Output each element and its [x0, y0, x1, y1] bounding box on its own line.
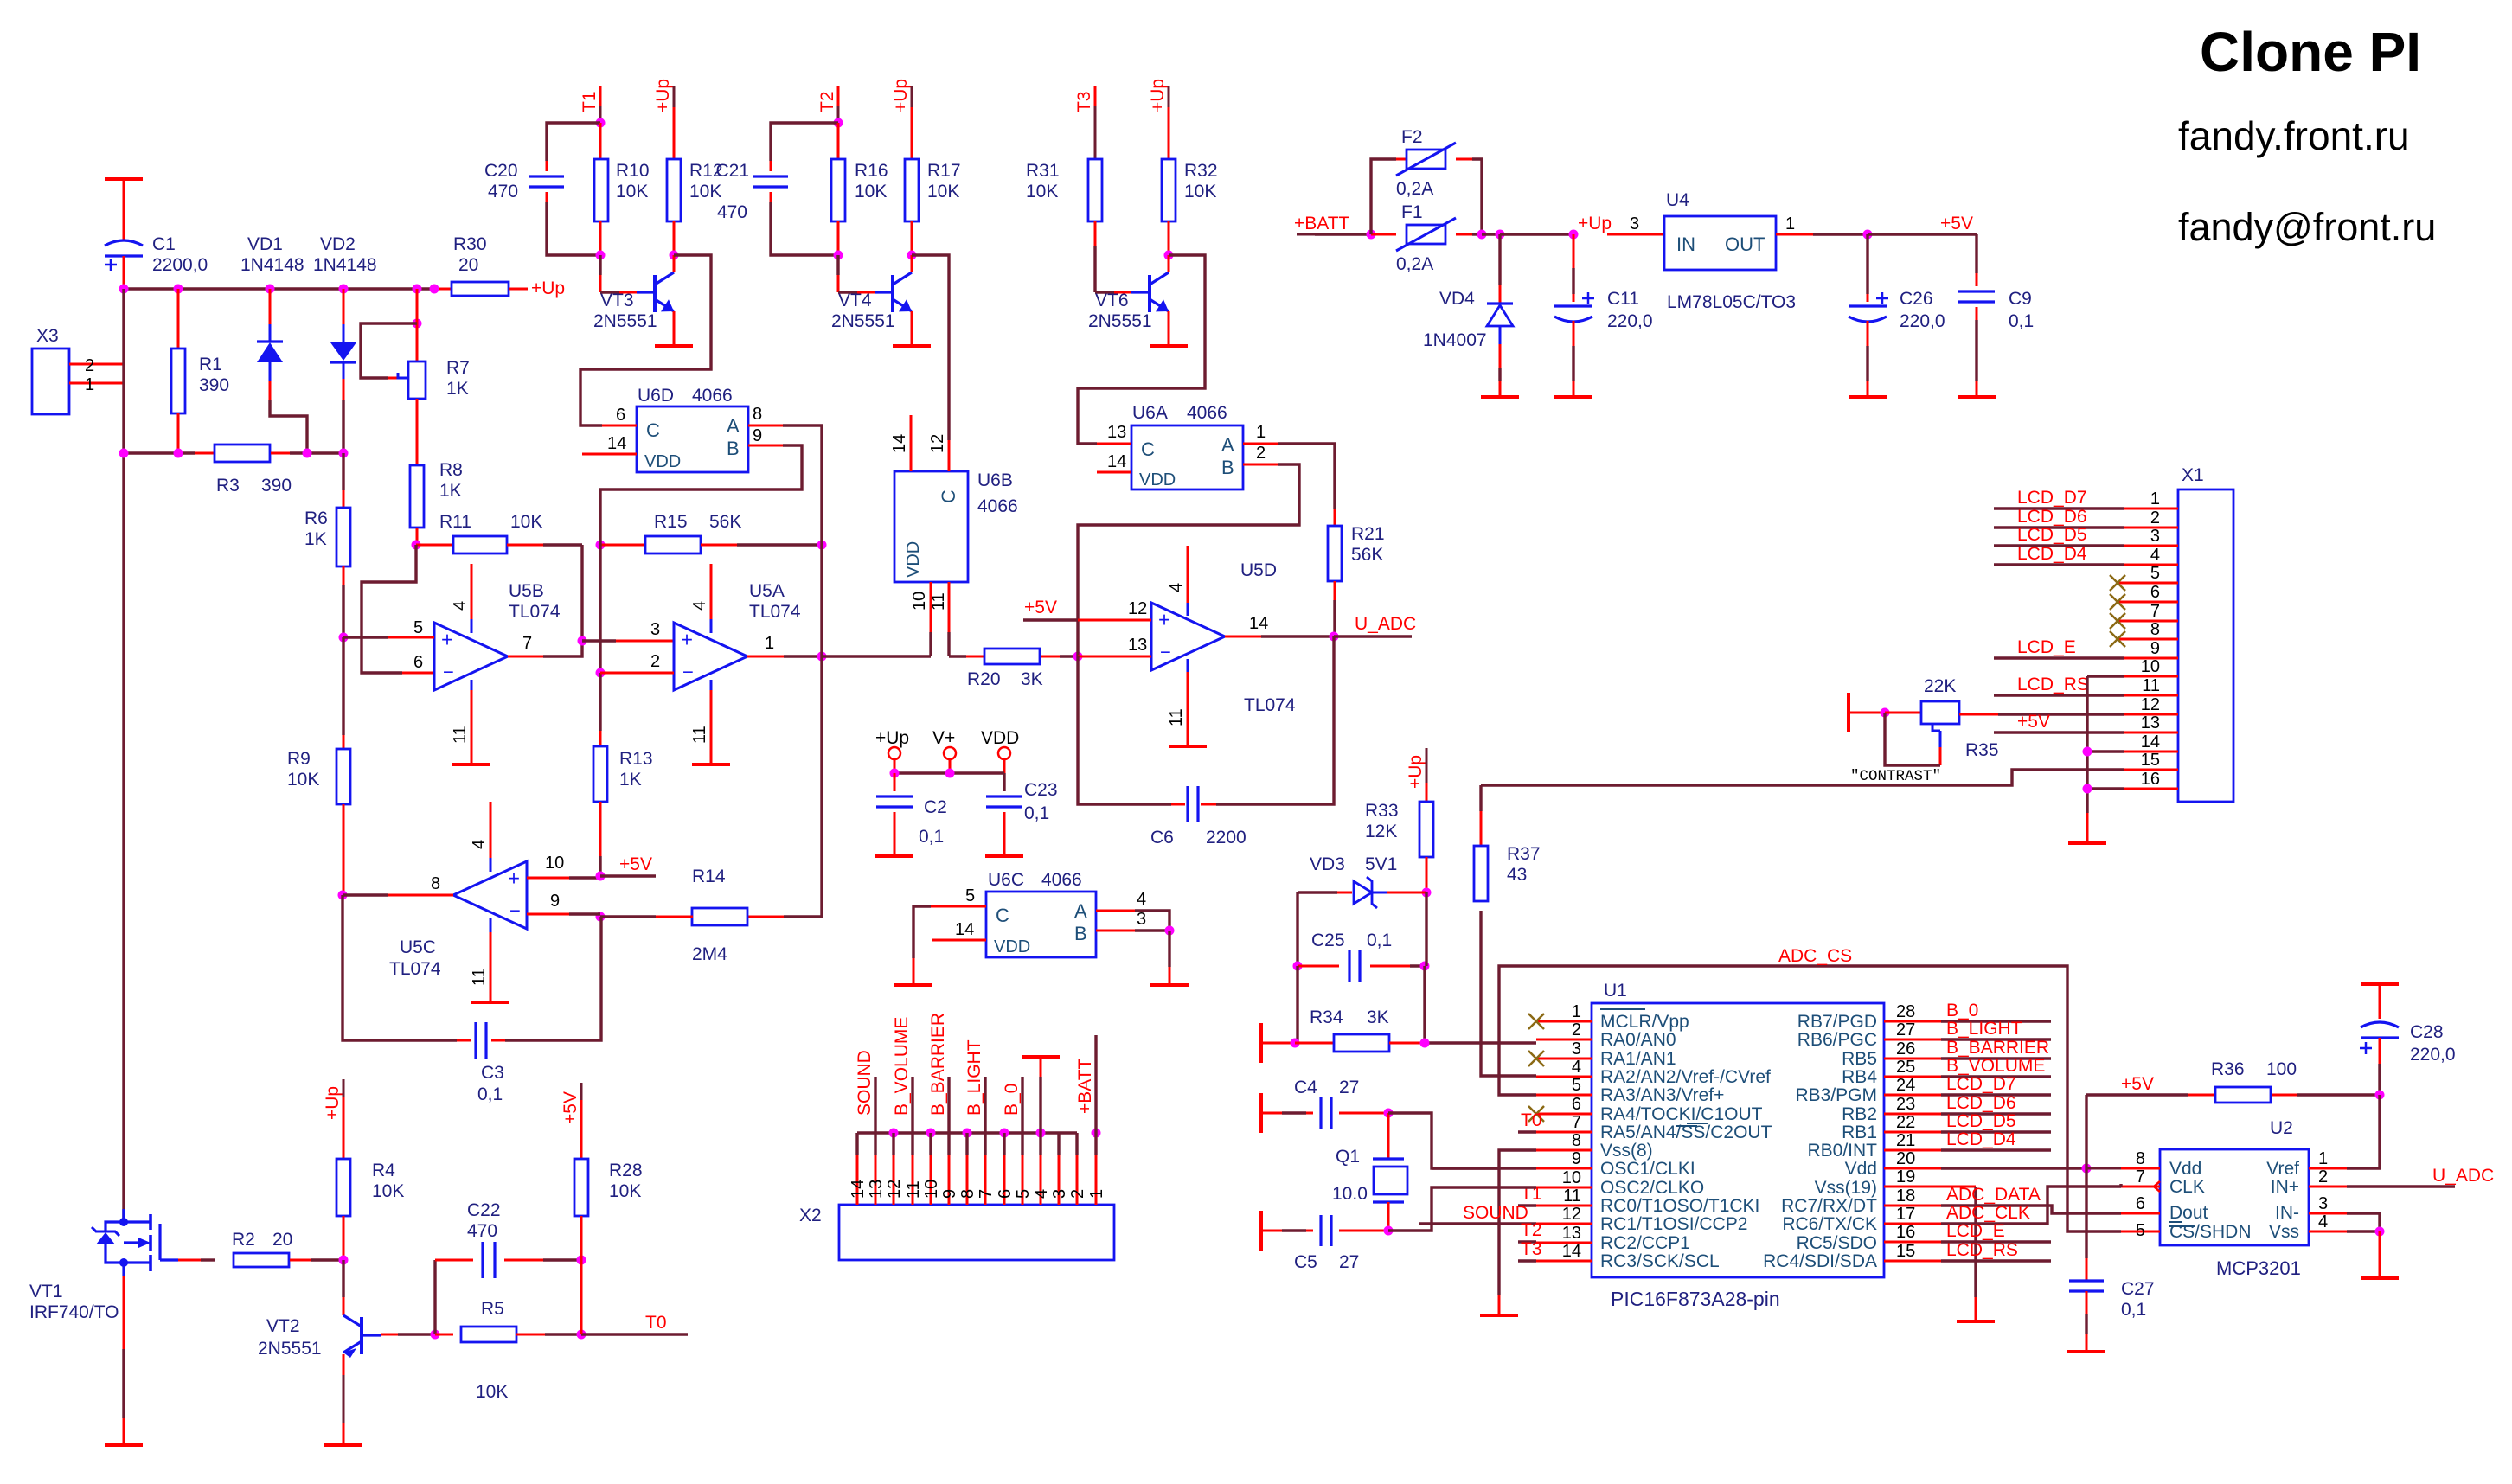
svg-text:RC4/SDI/SDA: RC4/SDI/SDA [1763, 1251, 1877, 1271]
svg-text:VD1: VD1 [247, 234, 283, 254]
svg-text:C21: C21 [715, 161, 749, 181]
svg-text:1: 1 [2150, 489, 2160, 509]
wire ADC_CS to pin5 [1499, 966, 2121, 1231]
X2 pin 11 stub [904, 1155, 923, 1205]
U1 pin 22 LCD_D5 [1884, 1111, 2051, 1132]
svg-text:LCD_D6: LCD_D6 [2017, 507, 2087, 527]
svg-text:R5: R5 [481, 1299, 504, 1319]
capacitor C5 [1294, 1215, 1388, 1272]
ground C11 [1554, 395, 1592, 399]
svg-text:26: 26 [1896, 1039, 1915, 1059]
svg-text:R4: R4 [372, 1161, 395, 1180]
svg-text:11: 11 [1167, 708, 1186, 726]
svg-text:U5B: U5B [509, 581, 544, 601]
node R3 VD1 [303, 449, 312, 458]
power tap C28 [2361, 984, 2399, 1019]
svg-text:10: 10 [2141, 657, 2160, 676]
wire VT4 col to U6B pin12 [912, 255, 949, 440]
X2 pin 9 B_BARRIER riser [928, 1013, 949, 1155]
U1 pin20 Vdd wire [1884, 1149, 2082, 1168]
node C23 top [945, 769, 955, 778]
svg-text:7: 7 [522, 634, 532, 653]
title email [2178, 205, 2436, 249]
wire U6D pin9 path [600, 445, 802, 545]
svg-text:220,0: 220,0 [1900, 311, 1945, 331]
wire U6B pin11 to R20 [949, 655, 984, 657]
node VT4 base col [834, 251, 843, 260]
svg-text:R16: R16 [855, 161, 888, 181]
U1 pin 28 B_0 [1884, 1001, 2051, 1021]
svg-text:8: 8 [2150, 620, 2160, 639]
net T3 [1074, 86, 1095, 159]
svg-text:VT6: VT6 [1095, 291, 1129, 310]
U6C pin3 [1096, 910, 1169, 931]
svg-text:B: B [1221, 457, 1234, 478]
U6D pin14 [582, 434, 637, 454]
svg-text:RB1: RB1 [1842, 1123, 1877, 1142]
node C2 top [890, 769, 900, 778]
svg-text:Dout: Dout [2169, 1203, 2208, 1223]
U5B pin6 label [413, 653, 423, 672]
svg-text:10K: 10K [855, 182, 887, 201]
svg-text:11: 11 [470, 968, 489, 986]
svg-text:1: 1 [1572, 1002, 1581, 1021]
wire VT4 emitter gnd [911, 311, 913, 346]
svg-text:OSC2/CLKO: OSC2/CLKO [1600, 1178, 1704, 1198]
wire R33 down [1425, 892, 1427, 966]
capacitor C27 [2069, 1279, 2155, 1352]
svg-text:−: − [1160, 642, 1171, 663]
svg-text:390: 390 [199, 375, 229, 395]
svg-text:X1: X1 [2182, 465, 2204, 485]
svg-text:CS/SHDN: CS/SHDN [2169, 1222, 2252, 1242]
resistor R28 [574, 1159, 643, 1260]
resistor R16 [831, 123, 888, 255]
svg-text:Vss(19): Vss(19) [1815, 1178, 1877, 1198]
U6B pin10 [910, 582, 931, 656]
svg-text:1: 1 [1785, 214, 1795, 233]
ground U5A [692, 763, 730, 766]
node U5A pin2 [596, 668, 606, 678]
U1 pin 5 stub [1536, 1076, 1592, 1095]
resistor R2 [178, 1230, 343, 1267]
node +Up main [1569, 230, 1579, 240]
svg-text:10K: 10K [1026, 182, 1058, 201]
U5B pin11 [451, 680, 471, 764]
wire R37 to pin4 [1481, 911, 1536, 1076]
node R7 top [413, 289, 422, 329]
U2 pin4 Vss [2309, 1212, 2380, 1231]
X1 pin 16 [2087, 770, 2178, 789]
U5C pin9 stub [527, 892, 600, 914]
svg-text:7: 7 [2136, 1167, 2145, 1187]
wire R35 right to X1 pin12 [1959, 713, 1998, 716]
svg-text:LM78L05C/TO3: LM78L05C/TO3 [1667, 292, 1796, 312]
U6B pin14 [890, 415, 911, 471]
svg-text:22K: 22K [1924, 676, 1956, 696]
svg-text:B_BARRIER: B_BARRIER [1946, 1038, 2049, 1058]
svg-text:2: 2 [1572, 1020, 1581, 1039]
ground U1 pin19 [1957, 1320, 1995, 1323]
svg-text:T0: T0 [645, 1313, 667, 1333]
X1 pin 4 LCD_D4 [1994, 544, 2178, 565]
node U5D pin13 [1073, 652, 1083, 662]
node U5C pin9 [596, 912, 606, 922]
svg-text:4066: 4066 [977, 496, 1018, 516]
svg-text:5: 5 [2150, 564, 2160, 583]
net +Up right of R30 [531, 278, 565, 298]
node X2 pin12 [889, 1129, 899, 1155]
svg-text:LCD_D4: LCD_D4 [1946, 1129, 2016, 1149]
svg-text:2: 2 [1068, 1189, 1087, 1199]
net T1 stub [1518, 1184, 1542, 1206]
svg-text:R30: R30 [453, 234, 487, 254]
svg-text:2200,0: 2200,0 [152, 255, 208, 275]
svg-text:TL074: TL074 [749, 602, 801, 622]
node VD3 right [1422, 888, 1432, 898]
ground U1 Vss [1480, 1314, 1518, 1317]
wire +Up to U4 [1607, 214, 1664, 234]
svg-text:390: 390 [261, 476, 292, 496]
svg-text:fandy@front.ru: fandy@front.ru [2178, 205, 2436, 249]
svg-text:R33: R33 [1365, 801, 1399, 821]
node R5 right [577, 1330, 586, 1340]
svg-text:0,1: 0,1 [1024, 803, 1049, 823]
svg-text:C28: C28 [2410, 1022, 2444, 1042]
node R35 left [1881, 708, 1890, 718]
svg-text:IN+: IN+ [2271, 1177, 2299, 1197]
X2 +BATT riser [1075, 1035, 1096, 1155]
ground U5C [471, 1001, 509, 1004]
svg-text:4: 4 [2150, 546, 2160, 565]
node R3 R1 [174, 449, 183, 458]
U5A output pin1 [747, 634, 822, 656]
svg-text:14: 14 [955, 920, 974, 939]
svg-text:LCD_D5: LCD_D5 [2017, 525, 2087, 545]
U2 CS stub [2121, 1221, 2160, 1240]
U1 pin 6 stub [1536, 1095, 1592, 1114]
svg-text:24: 24 [1896, 1076, 1915, 1095]
X2 pin 9 stub [940, 1155, 959, 1205]
X2 pin 14 stub [849, 1155, 868, 1205]
svg-text:6: 6 [2136, 1194, 2145, 1213]
node F right [1477, 230, 1487, 240]
svg-text:17: 17 [1896, 1205, 1915, 1224]
U6A pin1 [1243, 423, 1335, 526]
U1 pin 25 B_VOLUME [1884, 1056, 2051, 1077]
svg-text:R34: R34 [1310, 1007, 1343, 1027]
svg-text:1K: 1K [446, 379, 469, 399]
X2 pin 6 stub [996, 1155, 1015, 1205]
U1 pin 1 stub [1536, 1002, 1592, 1021]
wire VT3 emitter gnd [673, 311, 676, 346]
svg-text:1K: 1K [304, 529, 327, 549]
node T2 [834, 118, 843, 128]
svg-text:VDD: VDD [644, 452, 681, 471]
wire VD2 to R3 [342, 400, 344, 453]
title Clone PI [2200, 21, 2421, 83]
svg-text:12: 12 [2141, 695, 2160, 714]
node VD4 top [1496, 230, 1505, 240]
svg-text:2N5551: 2N5551 [831, 311, 895, 331]
svg-text:10K: 10K [1184, 182, 1216, 201]
node U6C pins34 [1165, 926, 1175, 936]
svg-text:8: 8 [1572, 1131, 1581, 1150]
svg-text:LCD_D7: LCD_D7 [1946, 1074, 2016, 1094]
svg-text:B_0: B_0 [1002, 1084, 1022, 1116]
svg-text:B_0: B_0 [1946, 1001, 1978, 1020]
U1 pin 10 stub [1536, 1168, 1592, 1187]
ground C2 [875, 854, 913, 858]
X2 pin 11 B_VOLUME riser [892, 1017, 913, 1155]
node C26 top [1863, 230, 1873, 240]
svg-text:U5A: U5A [749, 581, 785, 601]
svg-text:U_ADC: U_ADC [2432, 1166, 2494, 1186]
ground C26 [1849, 395, 1887, 399]
svg-text:C9: C9 [2009, 289, 2032, 309]
U1 pin 3 stub [1536, 1039, 1592, 1059]
svg-text:4: 4 [1572, 1058, 1581, 1077]
U1 pin18 ADC_DATA [1884, 1185, 2121, 1213]
U6A pin2 [1078, 444, 1299, 656]
svg-text:B_VOLUME: B_VOLUME [892, 1017, 912, 1116]
potentiometer R7 [361, 323, 470, 399]
node VT3 collector [670, 251, 679, 260]
svg-text:4066: 4066 [692, 386, 733, 406]
resistor R20 [967, 649, 1078, 689]
svg-text:VT1: VT1 [29, 1282, 63, 1302]
U1 pin17 ADC_CLK [1884, 1187, 2121, 1224]
svg-text:8: 8 [958, 1189, 977, 1199]
svg-text:RA2/AN2/Vref-/CVref: RA2/AN2/Vref-/CVref [1600, 1067, 1771, 1087]
svg-text:C4: C4 [1294, 1078, 1317, 1097]
svg-text:13: 13 [1107, 423, 1126, 442]
svg-text:OSC1/CLKI: OSC1/CLKI [1600, 1159, 1695, 1179]
svg-text:+: + [1158, 609, 1170, 632]
svg-text:X3: X3 [36, 326, 59, 346]
svg-text:RB7/PGD: RB7/PGD [1797, 1012, 1877, 1032]
wire R28 C22 junction [580, 1260, 583, 1334]
pin VDD circle [981, 728, 1019, 773]
X1 pin 12 wire [1998, 695, 2178, 714]
svg-text:LCD_D6: LCD_D6 [1946, 1093, 2016, 1113]
node R15 left [596, 541, 606, 550]
svg-text:0,2A: 0,2A [1396, 179, 1433, 199]
node C5 crystal [1384, 1226, 1394, 1236]
svg-text:4: 4 [1032, 1189, 1051, 1199]
svg-text:+5V: +5V [561, 1091, 580, 1124]
svg-text:5: 5 [965, 886, 975, 905]
wire contrast R37 to X1 pin15 [1481, 770, 2124, 785]
svg-text:TL074: TL074 [1244, 695, 1296, 715]
svg-text:27: 27 [1896, 1020, 1915, 1039]
svg-text:3: 3 [2318, 1194, 2328, 1213]
wire +5V rail [2086, 1074, 2188, 1168]
label CONTRAST [1850, 768, 1941, 785]
svg-text:5: 5 [413, 618, 423, 637]
X2 pin 7 stub [977, 1155, 996, 1205]
svg-text:2: 2 [2318, 1167, 2328, 1187]
svg-text:2: 2 [2150, 509, 2160, 528]
svg-text:10K: 10K [287, 770, 319, 790]
svg-text:fandy.front.ru: fandy.front.ru [2178, 113, 2410, 158]
svg-text:RA3/AN3/Vref+: RA3/AN3/Vref+ [1600, 1085, 1724, 1105]
svg-text:C25: C25 [1311, 931, 1345, 950]
wire VT3 col to U6D pin6 [580, 255, 711, 425]
svg-text:U6D: U6D [638, 386, 674, 406]
node C25 right [1420, 962, 1430, 971]
svg-text:470: 470 [467, 1221, 497, 1241]
wire R15 right down to out [820, 545, 823, 656]
node U5A out [817, 652, 827, 662]
U5A pin11 [690, 680, 711, 764]
svg-text:6: 6 [1572, 1095, 1581, 1114]
wire VD3 col down [1296, 892, 1298, 966]
X1 pin 15 [2124, 751, 2178, 770]
resistor R5 [435, 1299, 581, 1402]
resistor R36 [2188, 1059, 2380, 1103]
svg-text:+5V: +5V [1024, 598, 1057, 617]
node U2 Vss [2375, 1227, 2385, 1237]
svg-text:MCLR/Vpp: MCLR/Vpp [1600, 1012, 1689, 1032]
net +Up label [1578, 214, 1612, 233]
capacitor C21 [715, 123, 838, 255]
svg-text:6: 6 [2150, 583, 2160, 602]
svg-text:C26: C26 [1900, 289, 1933, 309]
svg-text:B: B [727, 438, 740, 459]
svg-text:1N4148: 1N4148 [240, 255, 304, 275]
resistor R4 [336, 1159, 404, 1260]
node VT3 base col [596, 251, 606, 260]
svg-text:11: 11 [1563, 1187, 1581, 1206]
node X1 pin16 [2083, 784, 2092, 794]
node VT6 collector [1164, 251, 1174, 260]
svg-text:R13: R13 [619, 749, 653, 769]
svg-text:A: A [727, 415, 740, 437]
net T1 [580, 86, 600, 123]
svg-text:23: 23 [1896, 1095, 1915, 1114]
U1 pin names [1600, 1009, 1877, 1271]
svg-text:220,0: 220,0 [1607, 311, 1653, 331]
node +5V U5C [596, 872, 606, 881]
net +Up above R12 [653, 79, 674, 159]
power tap C5 [1261, 1211, 1306, 1251]
svg-text:R14: R14 [692, 867, 726, 886]
svg-text:C3: C3 [481, 1063, 504, 1083]
wire VT6 col to U6A pin13 [1078, 255, 1205, 444]
svg-text:6: 6 [413, 653, 423, 672]
resistor R34 [1295, 1007, 1425, 1052]
diode VD3 zener 5V1 [1298, 854, 1426, 908]
ground U6C out [1150, 983, 1189, 987]
svg-text:12K: 12K [1365, 822, 1397, 841]
svg-text:16: 16 [2141, 770, 2160, 789]
connector X3 [32, 326, 124, 414]
ground VT2 [324, 1443, 362, 1447]
svg-text:VDD: VDD [981, 728, 1019, 748]
svg-text:ADC_CLK: ADC_CLK [1946, 1203, 2030, 1223]
svg-text:100: 100 [2266, 1059, 2297, 1079]
op-amp U5A [674, 581, 801, 690]
svg-text:C6: C6 [1150, 828, 1174, 848]
svg-text:"CONTRAST": "CONTRAST" [1850, 768, 1941, 785]
svg-text:1N4148: 1N4148 [313, 255, 377, 275]
svg-text:6: 6 [616, 406, 625, 425]
capacitor C22 [435, 1200, 581, 1334]
svg-text:1: 1 [765, 634, 774, 653]
node X2 pin4 [1036, 1129, 1046, 1155]
svg-text:25: 25 [1896, 1058, 1915, 1077]
svg-text:22: 22 [1896, 1113, 1915, 1132]
resistor R12 [667, 159, 723, 255]
svg-text:R6: R6 [304, 509, 328, 528]
U5A pin2 stub [600, 652, 674, 673]
wire C5 to pin10 [1388, 1187, 1536, 1231]
title url [2178, 113, 2410, 158]
U5D pin12 [1023, 598, 1151, 620]
U2 pin3 IN- [2309, 1194, 2380, 1231]
wire C27 down [2085, 1168, 2087, 1281]
svg-text:56K: 56K [709, 512, 741, 532]
capacitor C28 [2360, 1022, 2456, 1095]
U6A pin14 [1097, 452, 1131, 472]
net U_ADC wire [1334, 614, 1416, 636]
svg-text:R10: R10 [616, 161, 650, 181]
svg-text:14: 14 [2141, 732, 2160, 752]
U6C pin5 [931, 886, 986, 906]
ground C9 [1958, 395, 1996, 399]
svg-text:RC1/T1OSI/CCP2: RC1/T1OSI/CCP2 [1600, 1214, 1747, 1234]
wire pin9 stub ext [1432, 1167, 1536, 1169]
node C22 right [577, 1256, 586, 1265]
X2 pin 12 stub [885, 1155, 904, 1205]
resistor R13 [593, 746, 653, 876]
resistor R37 [1474, 785, 1541, 901]
transistor VT6 [1088, 246, 1169, 331]
svg-text:IN: IN [1676, 233, 1695, 255]
svg-text:TL074: TL074 [509, 602, 561, 622]
svg-text:C1: C1 [152, 234, 176, 254]
svg-text:U4: U4 [1666, 190, 1689, 210]
svg-text:8: 8 [431, 874, 440, 893]
capacitor C25 [1298, 931, 1425, 982]
X2 pin 7 B_LIGHT riser [964, 1039, 985, 1155]
node C4 crystal [1384, 1109, 1394, 1118]
svg-text:VT2: VT2 [266, 1316, 300, 1336]
node R7 col [413, 285, 422, 294]
node VD1 top [266, 285, 275, 294]
svg-text:+Up: +Up [1578, 214, 1612, 233]
R14 left stub [600, 916, 693, 918]
wire VT6 emitter gnd [1168, 311, 1170, 346]
svg-text:+5V: +5V [2017, 712, 2050, 732]
ground U2 [2361, 1276, 2399, 1280]
capacitor C3 [343, 895, 601, 1104]
U6B pin12 [928, 434, 949, 471]
svg-text:VT4: VT4 [838, 291, 872, 310]
svg-text:+Up: +Up [653, 79, 673, 112]
svg-text:7: 7 [977, 1189, 996, 1199]
node X2 pin6 [1000, 1129, 1009, 1155]
capacitor C6 [1078, 636, 1334, 848]
svg-text:0,1: 0,1 [1367, 931, 1392, 950]
diode VD1 [240, 234, 304, 400]
svg-text:ADC_DATA: ADC_DATA [1946, 1185, 2041, 1205]
net +Up above R4 [323, 1079, 343, 1159]
svg-text:12: 12 [1128, 599, 1147, 618]
IC U6B [894, 470, 1018, 582]
svg-text:OUT: OUT [1725, 233, 1765, 255]
